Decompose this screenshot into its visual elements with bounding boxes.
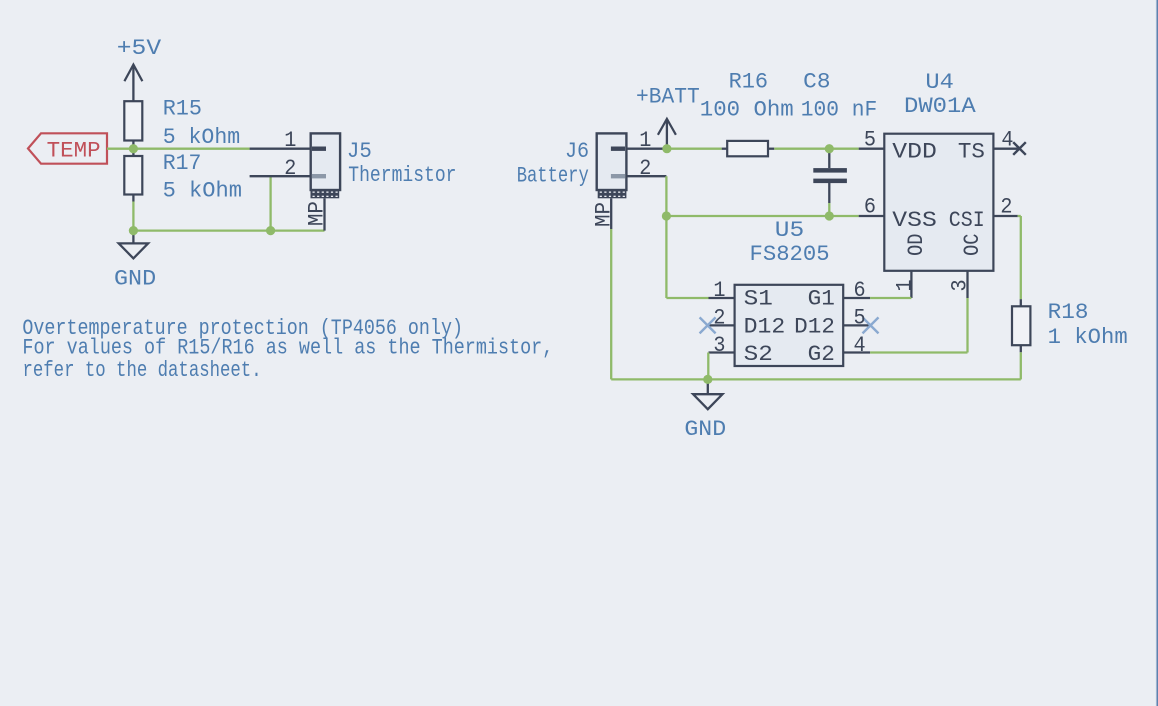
svg-text:VDD: VDD [892,140,937,165]
svg-text:6: 6 [854,278,866,303]
svg-text:R18: R18 [1048,300,1089,325]
svg-text:4: 4 [1001,127,1013,152]
svg-text:R15: R15 [163,97,202,122]
svg-text:1: 1 [893,279,918,291]
svg-text:D12: D12 [744,314,786,339]
svg-text:MP: MP [591,202,616,227]
svg-text:5 kOhm: 5 kOhm [163,125,241,150]
svg-text:R17: R17 [163,151,202,176]
svg-text:S1: S1 [744,287,773,312]
svg-text:4: 4 [854,333,866,358]
svg-text:1 kOhm: 1 kOhm [1048,325,1128,350]
svg-text:J5: J5 [347,139,372,164]
svg-text:G1: G1 [808,287,835,312]
svg-text:DW01A: DW01A [904,94,977,119]
svg-text:OC: OC [960,233,985,255]
svg-text:Battery: Battery [517,163,589,188]
svg-text:G2: G2 [808,342,835,367]
svg-text:Thermistor: Thermistor [348,163,456,188]
svg-text:+BATT: +BATT [636,84,700,109]
svg-text:R16: R16 [729,70,769,95]
svg-text:TS: TS [958,140,985,165]
svg-text:1: 1 [284,128,296,153]
svg-text:+5V: +5V [117,36,162,61]
svg-text:5 kOhm: 5 kOhm [163,178,242,203]
svg-text:GND: GND [684,417,726,442]
svg-text:6: 6 [864,195,876,220]
svg-text:VSS: VSS [892,208,937,233]
svg-text:refer to the datasheet.: refer to the datasheet. [23,358,262,383]
svg-text:CSI: CSI [949,208,985,233]
svg-text:5: 5 [854,306,866,331]
svg-text:TEMP: TEMP [47,138,101,163]
svg-text:3: 3 [713,333,725,358]
svg-text:MP: MP [305,201,330,226]
svg-text:3: 3 [947,279,972,291]
svg-text:1: 1 [713,278,725,303]
svg-text:FS8205: FS8205 [750,242,830,267]
svg-text:D12: D12 [794,314,835,339]
svg-text:GND: GND [114,267,156,292]
svg-text:J6: J6 [565,139,589,164]
svg-text:2: 2 [639,156,651,181]
svg-text:100 Ohm: 100 Ohm [700,98,794,123]
svg-text:C8: C8 [803,70,830,95]
svg-text:2: 2 [284,156,296,181]
svg-text:U5: U5 [775,218,804,243]
svg-text:100 nF: 100 nF [801,98,877,123]
svg-text:S2: S2 [744,342,773,367]
svg-text:2: 2 [1000,195,1012,220]
svg-text:5: 5 [864,127,876,152]
svg-text:U4: U4 [925,70,954,95]
svg-text:OD: OD [904,233,929,255]
svg-text:1: 1 [639,128,651,153]
svg-text:2: 2 [713,306,725,331]
